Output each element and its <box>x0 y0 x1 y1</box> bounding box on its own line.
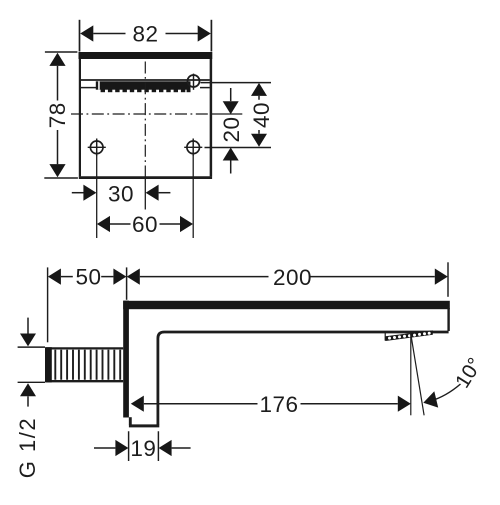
svg-text:20: 20 <box>219 116 244 142</box>
dimension 78 line <box>57 66 59 164</box>
hole right extension dashed <box>192 156 194 238</box>
dimension 82 extension line right <box>210 20 212 52</box>
svg-text:40: 40 <box>249 102 274 128</box>
outlet serrated bar <box>96 81 191 92</box>
dimension 82 extension line left <box>79 20 81 52</box>
wall plate right edge <box>210 59 213 176</box>
right extension line at outlet level <box>201 82 272 84</box>
right extension line at hole level <box>205 147 272 149</box>
dimension 20 bottom arrow (outside, pointing up) <box>223 148 239 161</box>
wall plate top bar (thick) <box>79 52 213 59</box>
threaded nipple end cap <box>45 347 52 382</box>
dimension 200 extension right <box>447 262 449 297</box>
spray reference line (vertical) <box>410 334 412 416</box>
outlet recess upper line <box>81 79 210 81</box>
dimension 30 line and arrows <box>72 192 84 194</box>
body lower left edge <box>129 417 132 425</box>
dimension 82 arrow right <box>198 25 211 41</box>
G 1/2 extension lines <box>18 347 45 382</box>
svg-text:50: 50 <box>75 264 101 289</box>
svg-text:19: 19 <box>130 436 156 461</box>
threaded nipple thread lines <box>55 350 120 380</box>
spout top band (thick) <box>123 301 450 309</box>
horizontal centre line <box>71 113 212 115</box>
dimension 40 arrow bottom <box>251 134 267 147</box>
svg-text:200: 200 <box>273 265 312 290</box>
dimension 40 line <box>258 96 260 134</box>
body bottom edge <box>129 424 159 427</box>
dimension 200 line and arrows <box>127 269 140 285</box>
mounting hole left centre marks <box>88 139 106 157</box>
set screw circle tick <box>193 74 195 90</box>
spout right end edge <box>447 308 449 331</box>
dimension 50 line and arrows <box>48 269 61 285</box>
outlet recess lower line left <box>81 87 96 89</box>
svg-text:G 1/2: G 1/2 <box>15 417 40 478</box>
dimension 78 arrow bottom <box>49 164 65 177</box>
extension line shared 50/200 <box>126 267 128 299</box>
dimension 78 arrow top <box>49 53 65 66</box>
vertical centre line <box>144 62 146 178</box>
svg-text:60: 60 <box>132 212 158 237</box>
G 1/2 arrow bottom (pointing up) <box>20 383 36 396</box>
dimension 78 extension bottom <box>44 177 78 179</box>
horizontal centre line extension right <box>211 113 242 115</box>
svg-text:30: 30 <box>108 182 134 207</box>
dimension 60 line and arrows <box>97 216 110 232</box>
dimension 19 line and arrows <box>94 447 115 449</box>
dimension 78 extension top <box>45 51 78 53</box>
aerator serrated strip <box>385 330 433 341</box>
mounting hole left <box>90 141 103 154</box>
dimension 50 extension left <box>47 267 49 342</box>
dimension 176 line and arrows <box>131 396 144 412</box>
spout bottom edge with inner fillet <box>158 332 449 425</box>
G 1/2 arrow top (pointing down) <box>27 318 29 334</box>
threaded nipple outline <box>46 348 123 381</box>
dimension 40 arrow top <box>251 83 267 96</box>
svg-text:78: 78 <box>45 102 70 128</box>
dimension 82 arrow left <box>80 25 93 41</box>
svg-text:176: 176 <box>259 392 298 417</box>
wall plate edge bar (thick vertical) <box>123 301 129 418</box>
spray direction line (10 degrees) <box>411 334 424 415</box>
svg-text:82: 82 <box>132 22 158 47</box>
wall plate bottom edge <box>79 176 212 179</box>
outlet recess lower line right <box>200 87 210 89</box>
mounting hole right centre marks <box>184 139 202 157</box>
mounting hole right <box>187 141 200 154</box>
hole left extension dashed <box>96 156 98 238</box>
wall plate left edge <box>79 59 81 176</box>
dimension 82 line <box>93 33 198 35</box>
set screw circle <box>188 75 200 87</box>
angle leader arrow <box>430 384 461 401</box>
dimension 20 top arrow (outside, pointing down) <box>230 88 232 101</box>
dimension 19 extension lines <box>129 431 159 461</box>
